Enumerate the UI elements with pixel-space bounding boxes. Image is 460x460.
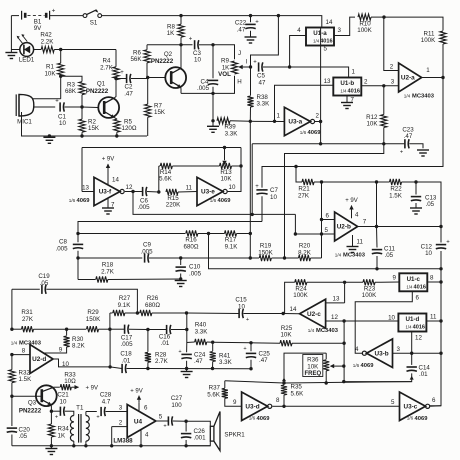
svg-text:LM388: LM388 [113,438,133,445]
wire [440,269,442,353]
svg-text:14: 14 [326,19,333,26]
ground [43,137,55,143]
svg-text:3: 3 [397,346,401,353]
node rail-C22 [249,14,252,17]
svg-text:+: + [243,346,246,352]
analog switch U1-c [393,273,441,291]
svg-text:12: 12 [331,314,338,321]
node C4-R39-gnd [211,119,214,122]
node R22-C13 [414,180,417,183]
node R35-top [282,378,286,385]
analog switch U1-d [326,313,441,331]
wire [81,148,83,192]
capacitor C8 [55,232,83,280]
node y269-C11 [375,267,378,270]
wire [213,341,251,344]
svg-text:9: 9 [59,347,63,354]
node R1-R3 [59,75,62,78]
svg-text:14: 14 [290,306,297,313]
resistor R3 [65,82,85,108]
node U2b-out [375,225,378,228]
resistor R18 [78,262,181,283]
svg-text:U1-d: U1-d [406,316,420,323]
svg-text:13: 13 [82,184,89,191]
svg-text:4016: 4016 [320,39,332,45]
svg-text:2.7K: 2.7K [155,358,169,365]
node C24-bot [185,367,188,370]
transformer T1 [70,404,96,446]
svg-text:680Ω: 680Ω [184,243,199,250]
svg-text:11: 11 [357,239,364,246]
svg-text:SPKR1: SPKR1 [224,432,245,439]
svg-text:.005: .005 [55,245,68,252]
resistor R12 [366,86,387,144]
node R34-gnd [50,444,53,447]
wire [34,106,55,108]
wire [78,222,262,232]
wire [82,106,98,109]
resistor R31 [12,309,67,332]
pin 7 ground [341,96,355,109]
resistor R25 [251,325,344,346]
wire [12,395,42,397]
svg-text:100: 100 [171,402,182,409]
svg-text:1/4: 1/4 [313,39,320,44]
svg-text:10K: 10K [220,176,232,183]
svg-text:U3-d: U3-d [245,404,259,411]
svg-text:4069: 4069 [218,198,232,204]
node R25-right [342,342,345,345]
svg-text:3.3K: 3.3K [257,100,271,107]
svg-text:VOL: VOL [218,71,231,78]
svg-text:1/4: 1/4 [11,340,18,345]
ground [410,208,422,214]
svg-text:3: 3 [119,404,123,411]
potentiometer R36 10K FREQ [303,353,344,383]
svg-text:U3-a: U3-a [288,119,302,126]
svg-text:.47: .47 [404,133,413,140]
node R40-R41 [211,341,214,344]
svg-text:4016: 4016 [413,325,425,331]
label pin7 [363,218,367,225]
node R19-R20 [283,256,286,259]
svg-text:10: 10 [388,314,395,321]
svg-text:U3-e: U3-e [201,189,215,196]
svg-text:I: I [246,59,248,66]
svg-text:1: 1 [277,112,281,119]
capacitor C7 [255,184,278,222]
svg-text:100K: 100K [293,292,308,299]
svg-text:+: + [255,184,259,190]
svg-text:8: 8 [22,347,26,354]
resistor R27 [110,295,137,316]
svg-text:100K: 100K [421,37,436,44]
svg-text:+: + [96,415,99,421]
wire [147,44,193,46]
svg-text:3: 3 [338,27,342,34]
svg-text:2: 2 [119,419,123,426]
svg-text:.005: .005 [197,85,210,92]
svg-text:1/6: 1/6 [210,198,217,203]
wire [384,17,443,30]
svg-text:5: 5 [324,46,328,53]
capacitor C24 [178,343,206,369]
node U2d-out [108,365,111,368]
node U4-pin2-rail [110,444,113,447]
wire [358,226,377,228]
capacitor C25 [243,343,270,369]
ground [45,446,57,455]
svg-text:100K: 100K [362,292,377,299]
svg-text:+ 9V: + 9V [130,389,143,395]
resistor R6 [130,45,150,78]
wire [320,28,322,144]
transistor Q2 [151,45,186,94]
wire [102,16,322,28]
node A [59,48,62,51]
svg-text:4016: 4016 [348,89,360,95]
wire [252,143,404,145]
capacitor C17 [110,325,148,348]
audio amplifier U4 LM386 [112,404,156,446]
svg-text:9: 9 [393,275,397,282]
wire [321,182,323,258]
node C17-C16 [146,328,149,331]
node pin5-tap [294,232,297,235]
node y269-col [439,267,442,270]
svg-text:1.5K: 1.5K [19,376,33,383]
ground [5,50,17,59]
svg-text:4069: 4069 [308,130,322,136]
pin 6 routing [355,291,419,353]
wire [249,121,251,258]
node U3f-out [131,190,134,193]
svg-text:+: + [189,37,193,43]
svg-text:MC3403: MC3403 [316,328,339,334]
svg-text:LED1: LED1 [19,57,35,64]
wire [109,313,111,329]
wire [53,359,111,367]
capacitor C18 [110,351,148,373]
resistor R1 [44,50,63,99]
svg-text:U2-d: U2-d [32,356,46,363]
svg-text:13: 13 [324,78,331,85]
svg-text:4: 4 [355,346,359,353]
node y383-x344 [342,376,414,384]
svg-text:100K: 100K [357,27,372,34]
node R26-C15 [185,311,188,314]
node U3b3-C14 [410,352,413,355]
svg-text:.47: .47 [124,90,133,97]
svg-text:3: 3 [391,79,395,86]
microphone MIC1 [16,94,34,125]
LED LED1 [11,16,38,64]
ground [175,281,187,287]
inverter U3-a [250,107,321,136]
svg-text:+: + [120,70,124,76]
wire [284,382,412,383]
node rail-U1a4net [277,14,280,17]
svg-text:.001: .001 [194,435,207,442]
node out-col [439,225,442,228]
inverter U3-b [353,339,441,369]
node gnd-line [48,134,51,137]
capacitor C1 [55,98,82,127]
svg-text:120Ω: 120Ω [122,125,137,132]
capacitor C2 [116,70,147,97]
ground [245,37,257,43]
resistor R2 [79,107,100,136]
node R2-gnd [80,134,83,137]
resistor R22 [377,179,417,200]
svg-text:1/4: 1/4 [308,328,315,333]
capacitor C6 [133,187,159,211]
capacitor C3 [189,37,213,64]
ground [181,369,193,378]
node R36-wiper [342,364,345,367]
svg-text:U2-a: U2-a [401,75,415,82]
svg-text:10K: 10K [307,363,319,370]
svg-text:1/6: 1/6 [69,198,76,203]
resistor R32 [9,355,32,397]
svg-text:10: 10 [229,184,236,191]
inverter U3-f [69,177,133,206]
node U3a-out [319,120,322,123]
svg-text:1/4: 1/4 [406,284,413,289]
svg-text:T1: T1 [76,404,84,411]
node pin10-junction [342,319,345,322]
svg-text:1/6: 1/6 [407,416,414,421]
transistor Q1 [86,79,119,120]
capacitor C23 [400,127,423,156]
wire [213,45,235,59]
wire [322,181,377,183]
svg-text:4069: 4069 [361,363,375,369]
node R17-end [249,232,252,235]
resistor R11 [421,31,446,78]
svg-text:6: 6 [432,397,436,404]
svg-text:U2-c: U2-c [307,311,321,318]
svg-text:+ 9V: + 9V [86,386,99,392]
capacitor C28 [96,392,127,421]
inverter U3-e [186,177,241,206]
svg-text:+: + [446,239,450,245]
node Q2-base [146,76,149,79]
node R24-R23 [343,281,346,284]
svg-text:9.1K: 9.1K [225,243,239,250]
node U2a-out [441,76,444,79]
svg-text:+: + [163,424,166,430]
op-amp U2-d [11,340,70,373]
svg-text:+: + [255,20,259,26]
node R22-left [375,180,378,183]
svg-text:4069: 4069 [415,416,429,422]
svg-text:.05: .05 [19,433,28,440]
node T1-right-gnd [84,444,87,447]
svg-text:4069: 4069 [257,416,271,422]
capacitor C14 [344,353,431,381]
svg-text:68K: 68K [65,88,77,95]
resistor R7 [145,78,166,137]
node C26-rail [184,444,187,447]
svg-text:1/4: 1/4 [335,253,342,258]
resistor R19 [250,243,284,261]
resistor R8 [167,16,184,45]
svg-text:.01: .01 [122,357,131,364]
svg-text:1/4: 1/4 [340,89,347,94]
svg-text:U1-c: U1-c [407,276,421,283]
wire [22,112,148,136]
resistor R17 [209,230,251,250]
node C16-vert [185,328,188,331]
svg-text:10K: 10K [366,121,378,128]
svg-text:15K: 15K [154,109,166,116]
svg-text:4: 4 [145,432,149,439]
node U2c-out [282,312,285,315]
svg-text:10: 10 [59,120,66,127]
capacitor C27 [156,395,186,430]
node R21-U2b [320,180,323,183]
svg-text:8.2K: 8.2K [72,343,86,350]
svg-text:1/4: 1/4 [404,94,411,99]
svg-text:14: 14 [112,177,119,184]
svg-text:5: 5 [391,399,395,406]
svg-text:1K: 1K [167,30,175,37]
node wiper-R13-top [223,146,226,149]
node U1d11-col [439,319,442,322]
node R35-bot [282,405,285,408]
wire [12,445,210,447]
svg-text:150K: 150K [86,316,101,323]
svg-text:27K: 27K [22,316,34,323]
pin 7 ground U3-f [102,199,115,215]
node R12-C23line [382,142,385,145]
resistor R38 [247,67,270,121]
wire [285,144,384,258]
svg-text:8.2K: 8.2K [298,249,312,256]
capacitor C11 [372,227,396,269]
node R5-gnd [115,134,118,137]
resistor R28 [145,330,169,369]
svg-text:4: 4 [297,27,301,34]
capacitor C19 [38,273,137,313]
svg-text:6: 6 [416,295,420,302]
svg-text:.005: .005 [140,248,153,255]
svg-text:.05: .05 [426,201,435,208]
power +9V U4 pin6 [130,389,148,412]
node R16-R17 [207,232,210,235]
capacitor C9 [140,242,180,263]
wire [416,182,441,243]
svg-text:U3-f: U3-f [99,189,112,196]
node C8-top [76,232,79,235]
node U2a-in3 [382,84,385,87]
svg-text:U3-b: U3-b [374,350,388,357]
pin 4 stem [141,430,149,446]
wire [430,353,441,406]
svg-text:2.2K: 2.2K [41,38,55,45]
capacitor C22 [235,16,259,37]
svg-text:.47: .47 [194,358,203,365]
svg-text:.05: .05 [385,252,394,259]
svg-text:U4: U4 [134,418,143,425]
node R41-bot [211,367,214,370]
switch S1 [83,10,102,27]
wire [50,15,83,17]
node R19-left [249,256,252,259]
node R36-bot [325,381,328,384]
capacitor C13 [411,182,437,208]
node R13-U3e [239,164,242,167]
resistor R26 [137,295,186,316]
inverter U3-c [391,392,441,422]
svg-text:1/6: 1/6 [300,130,307,135]
wire [61,49,116,51]
resistor R10 [357,14,384,34]
resistor R34 [48,411,69,446]
svg-text:10: 10 [425,250,432,257]
svg-text:10Ω: 10Ω [64,378,76,385]
svg-text:47: 47 [259,79,266,86]
svg-text:3.3K: 3.3K [195,328,209,335]
ground [417,150,429,156]
node R31-left [10,328,13,331]
resistor R42 [38,32,61,53]
svg-text:Q3: Q3 [28,400,37,407]
resistor R16 [184,230,209,250]
svg-text:+: + [178,349,181,355]
node R38-U3a [249,120,252,123]
resistor R15 [166,189,197,209]
op-amp U2-c [283,296,344,334]
battery B1 9V [11,8,55,32]
svg-text:3.3K: 3.3K [225,130,239,137]
wire [33,98,61,100]
svg-text:5.6K: 5.6K [207,391,221,398]
node C9-C10 [179,256,182,259]
svg-text:27K: 27K [298,192,310,199]
wire [225,381,284,383]
svg-text:J: J [238,50,241,57]
wire [334,17,355,35]
svg-text:11: 11 [186,184,193,191]
op-amp U2-a [361,17,443,100]
power +9V U3-f pin14 [102,157,120,185]
svg-text:5: 5 [159,414,163,421]
wire [181,92,213,94]
svg-text:U2-b: U2-b [337,224,351,231]
svg-text:MC3403: MC3403 [19,341,42,347]
wire [284,405,400,407]
wire [343,321,345,382]
svg-text:10: 10 [60,398,67,405]
node U4-pin4-rail [139,444,142,447]
node R29-right [108,328,111,331]
label pin5 [324,46,328,53]
potentiometer R9 1K VOL [218,50,250,86]
resistor R24 [283,279,344,313]
svg-text:1.5K: 1.5K [389,192,403,199]
node C25-top [249,341,252,344]
wire [78,257,142,259]
svg-text:2.7K: 2.7K [101,268,115,275]
svg-text:5.6K: 5.6K [291,390,305,397]
node R10-out [382,15,385,18]
node pin3-col [439,352,442,355]
capacitor C20 [7,396,31,446]
label pin3 [338,27,342,34]
wire [82,147,241,149]
